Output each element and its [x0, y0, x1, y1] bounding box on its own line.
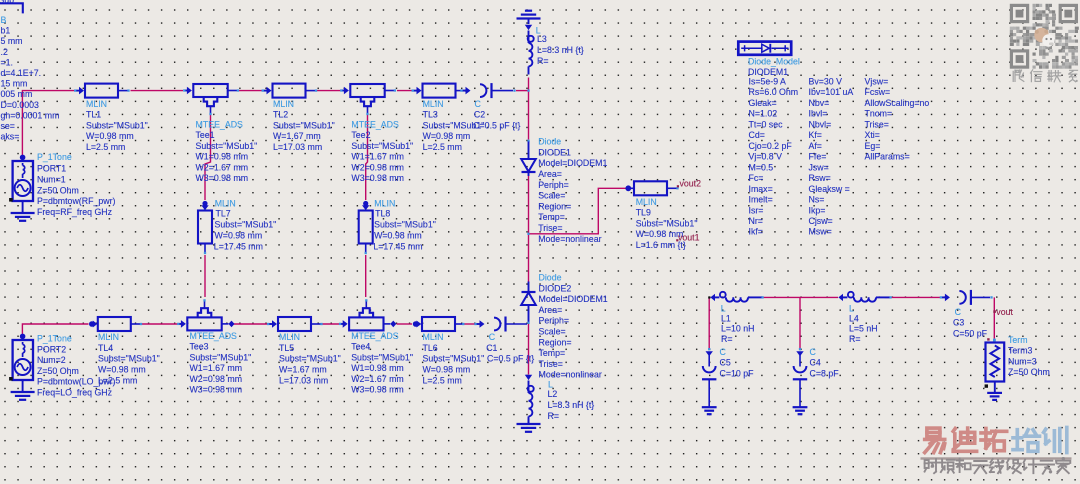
svg-text:Num=1: Num=1: [37, 174, 66, 184]
svg-text:Subst="MSub1": Subst="MSub1": [636, 218, 698, 228]
svg-text:MSub: MSub: [0, 0, 14, 5]
svg-text:L=17.03 mm: L=17.03 mm: [273, 142, 322, 152]
svg-text:L=17.03 mm: L=17.03 mm: [279, 376, 328, 386]
svg-text:Diode: Diode: [539, 273, 562, 283]
svg-text:Gleak=: Gleak=: [749, 98, 777, 108]
svg-text:W3=0.98 mm: W3=0.98 mm: [190, 385, 243, 395]
svg-text:C=50 pF: C=50 pF: [953, 328, 988, 338]
svg-text:L=8.3 nH {t}: L=8.3 nH {t}: [548, 400, 595, 410]
svg-text:L: L: [548, 380, 553, 390]
svg-text:Isr=: Isr=: [749, 205, 764, 215]
svg-text:Temp=: Temp=: [539, 348, 566, 358]
svg-text:aks=: aks=: [1, 132, 20, 142]
svg-text:MLIN: MLIN: [374, 198, 395, 208]
svg-text:W=0.98 mm: W=0.98 mm: [374, 231, 422, 241]
svg-text:TL6: TL6: [423, 343, 438, 353]
svg-text:Model=DIODEM1: Model=DIODEM1: [538, 158, 607, 168]
svg-text:Diode: Diode: [538, 137, 561, 147]
svg-text:D=0.0003: D=0.0003: [1, 100, 40, 110]
svg-text:TL9: TL9: [636, 208, 651, 218]
svg-text:Trise=: Trise=: [538, 223, 562, 233]
svg-text:L=17.45 mm: L=17.45 mm: [214, 242, 263, 252]
svg-text:MLIN: MLIN: [215, 198, 236, 208]
svg-text:Subst="MSub1": Subst="MSub1": [351, 141, 413, 151]
svg-text:Tnom=: Tnom=: [865, 109, 893, 119]
svg-text:Fcsw=: Fcsw=: [865, 87, 891, 97]
svg-text:Tee2: Tee2: [351, 130, 370, 140]
svg-text:W=1.67 mm: W=1.67 mm: [279, 365, 327, 375]
svg-text:Periph=: Periph=: [539, 316, 570, 326]
svg-text:L=5 nH: L=5 nH: [849, 324, 878, 334]
svg-text:Subst="MSub1": Subst="MSub1": [190, 352, 252, 362]
svg-text:C: C: [475, 99, 482, 109]
svg-text:C5: C5: [720, 358, 731, 368]
svg-text:Model=DIODEM1: Model=DIODEM1: [539, 294, 608, 304]
svg-text:MLIN: MLIN: [273, 99, 294, 109]
svg-text:Eg=: Eg=: [865, 141, 881, 151]
svg-text:vout2: vout2: [680, 178, 702, 188]
svg-text:MTEE_ADS: MTEE_ADS: [351, 331, 399, 341]
svg-text:C=10 pF: C=10 pF: [720, 368, 755, 378]
svg-text:005 mm: 005 mm: [1, 89, 33, 99]
svg-text:Is=5e-9 A: Is=5e-9 A: [749, 77, 787, 87]
svg-text:Periph=: Periph=: [538, 180, 569, 190]
svg-text:Vj=0.8 V: Vj=0.8 V: [749, 152, 783, 162]
svg-text:DIODE2: DIODE2: [539, 283, 572, 293]
svg-text:Num=3: Num=3: [1008, 356, 1037, 366]
svg-text:Subst="MSub1": Subst="MSub1": [351, 352, 413, 362]
svg-text:Cjo=0.2 pF: Cjo=0.2 pF: [749, 141, 793, 151]
svg-text:PORT1: PORT1: [37, 164, 66, 174]
svg-text:L=8.3 nH {t}: L=8.3 nH {t}: [537, 45, 584, 55]
svg-text:W3=0.98 mm: W3=0.98 mm: [351, 173, 404, 183]
svg-text:Jsw=: Jsw=: [809, 162, 829, 172]
svg-text:15 mm: 15 mm: [1, 79, 28, 89]
svg-text:Rsw=: Rsw=: [809, 173, 831, 183]
svg-text:N=1.02: N=1.02: [749, 109, 778, 119]
svg-text:L=10 nH: L=10 nH: [721, 324, 755, 334]
svg-text:Area=: Area=: [538, 169, 562, 179]
svg-text:Freq=LO_freq GHz: Freq=LO_freq GHz: [37, 388, 112, 398]
svg-text:P=dbmtow(RF_pwr): P=dbmtow(RF_pwr): [37, 196, 116, 206]
svg-text:DIODE1: DIODE1: [538, 147, 571, 157]
svg-text:Af=: Af=: [809, 141, 822, 151]
svg-text:Trise=: Trise=: [539, 359, 563, 369]
svg-text:Subst="MSub1": Subst="MSub1": [196, 141, 258, 151]
svg-text:MLIN: MLIN: [86, 99, 107, 109]
svg-text:Bv=30 V: Bv=30 V: [809, 77, 843, 87]
svg-text:C: C: [955, 307, 962, 317]
svg-text:Cjsw=: Cjsw=: [809, 216, 833, 226]
svg-text:Fc=: Fc=: [749, 173, 764, 183]
svg-text:.2: .2: [1, 47, 8, 57]
svg-text:W=0.98 mm: W=0.98 mm: [86, 131, 134, 141]
svg-text:Tee3: Tee3: [190, 342, 209, 352]
svg-text:Term3: Term3: [1008, 346, 1033, 356]
svg-text:Ffe=: Ffe=: [809, 152, 827, 162]
svg-text:MTEE_ADS: MTEE_ADS: [196, 120, 244, 130]
svg-text:W2=0.98 mm: W2=0.98 mm: [351, 162, 404, 172]
svg-text:B: B: [1, 15, 7, 25]
svg-text:L: L: [721, 304, 726, 314]
svg-text:C: C: [489, 332, 496, 342]
svg-text:Subst="MSub1": Subst="MSub1": [215, 220, 277, 230]
svg-text:Ns=: Ns=: [809, 195, 825, 205]
svg-text:W3=0.98 mm: W3=0.98 mm: [351, 385, 404, 395]
svg-text:C1: C1: [486, 343, 497, 353]
svg-text:L: L: [849, 304, 854, 314]
svg-text:Tt=0 sec: Tt=0 sec: [749, 119, 784, 129]
svg-text:MTEE_ADS: MTEE_ADS: [351, 120, 399, 130]
svg-text:W1=0.98 mm: W1=0.98 mm: [351, 363, 404, 373]
svg-text:TL1: TL1: [86, 110, 101, 120]
svg-text:Ibvl=: Ibvl=: [809, 109, 828, 119]
svg-text:Z=50 Ohm: Z=50 Ohm: [37, 185, 79, 195]
svg-text:Mode=nonlinear: Mode=nonlinear: [538, 234, 601, 244]
svg-text:W3=0.98 mm: W3=0.98 mm: [196, 173, 249, 183]
svg-text:Scale=: Scale=: [539, 327, 566, 337]
svg-text:C=0.5 pF {t}: C=0.5 pF {t}: [473, 120, 520, 130]
svg-text:Gleaksw =: Gleaksw =: [809, 184, 850, 194]
svg-text:W=0.98 mm: W=0.98 mm: [423, 365, 471, 375]
svg-text:W1=1.67 mm: W1=1.67 mm: [190, 363, 243, 373]
svg-text:MLIN: MLIN: [98, 332, 119, 342]
svg-text:L=2.5 mm: L=2.5 mm: [86, 142, 125, 152]
svg-text:W=0.98 mm: W=0.98 mm: [215, 231, 263, 241]
svg-text:L2: L2: [548, 389, 558, 399]
svg-text:Freq=RF_freq GHz: Freq=RF_freq GHz: [37, 207, 112, 217]
svg-text:R=: R=: [721, 334, 733, 344]
svg-text:Subst="MSub1": Subst="MSub1": [98, 354, 160, 364]
svg-text:Msw=: Msw=: [809, 227, 832, 237]
svg-text:L=17.45 mm: L=17.45 mm: [373, 242, 422, 252]
svg-text:PORT2: PORT2: [37, 344, 66, 354]
svg-text:P_1Tone: P_1Tone: [37, 152, 72, 162]
svg-text:d=4.1E+7.: d=4.1E+7.: [1, 68, 42, 78]
svg-text:W2=0.98 mm: W2=0.98 mm: [190, 374, 243, 384]
svg-text:Imelt=: Imelt=: [749, 195, 773, 205]
svg-text:R=: R=: [537, 56, 549, 66]
svg-text:L1: L1: [721, 313, 731, 323]
svg-text:Subst="MSub1": Subst="MSub1": [374, 220, 436, 230]
svg-text:AllowScaling=no: AllowScaling=no: [865, 98, 930, 108]
svg-text:Trise=: Trise=: [865, 119, 889, 129]
svg-text:W1=1.67 mm: W1=1.67 mm: [351, 152, 404, 162]
svg-text:TL2: TL2: [273, 110, 288, 120]
svg-text:W2=1.67 mm: W2=1.67 mm: [351, 374, 404, 384]
svg-text:Imax=: Imax=: [749, 184, 773, 194]
svg-text:Temp=: Temp=: [538, 212, 565, 222]
svg-text:TL5: TL5: [279, 343, 294, 353]
svg-text:C=0.5 pF {t}: C=0.5 pF {t}: [487, 354, 534, 364]
svg-text:TL7: TL7: [216, 209, 231, 219]
svg-text:Num=2: Num=2: [37, 355, 66, 365]
svg-text:Z=50 Ohm: Z=50 Ohm: [37, 366, 79, 376]
svg-text:Mode=nonlinear: Mode=nonlinear: [539, 370, 602, 380]
svg-text:C=8 pF: C=8 pF: [810, 368, 840, 378]
svg-text:L3: L3: [537, 34, 547, 44]
svg-text:C4: C4: [810, 358, 821, 368]
svg-text:MLIN: MLIN: [636, 197, 657, 207]
svg-text:TL3: TL3: [423, 110, 438, 120]
svg-text:R=: R=: [548, 411, 560, 421]
svg-text:L=2.5 mm: L=2.5 mm: [423, 142, 462, 152]
svg-text:AllParams=: AllParams=: [865, 152, 910, 162]
svg-text:Nr=: Nr=: [749, 216, 763, 226]
svg-text:Subst="MSub1": Subst="MSub1": [273, 120, 335, 130]
svg-text:TL4: TL4: [98, 343, 113, 353]
svg-text:C2: C2: [474, 110, 485, 120]
svg-text:Cd=: Cd=: [749, 130, 765, 140]
svg-text:C: C: [810, 347, 817, 357]
svg-text:Z=50 Ohm: Z=50 Ohm: [1008, 367, 1050, 377]
svg-text:vout: vout: [996, 307, 1013, 317]
svg-text:Tee4: Tee4: [351, 342, 370, 352]
svg-text:Ikf=: Ikf=: [749, 227, 763, 237]
svg-text:Ibv=101 uA: Ibv=101 uA: [809, 87, 854, 97]
svg-text:L=2.5 mm: L=2.5 mm: [98, 376, 137, 386]
svg-text:Term: Term: [1008, 335, 1028, 345]
svg-text:Tee1: Tee1: [196, 130, 215, 140]
svg-text:Subst="MSub1": Subst="MSub1": [86, 120, 148, 130]
svg-text:MLIN: MLIN: [423, 99, 444, 109]
svg-text:C: C: [720, 347, 727, 357]
svg-text:W=0.98 mm: W=0.98 mm: [423, 131, 471, 141]
svg-text:vout1: vout1: [678, 232, 700, 242]
svg-text:Rs=6.0 Ohm: Rs=6.0 Ohm: [749, 87, 799, 97]
svg-text:MLIN: MLIN: [279, 332, 300, 342]
svg-text:Diode_Model: Diode_Model: [748, 56, 800, 66]
svg-text:C3: C3: [953, 318, 964, 328]
svg-text:se=: se=: [1, 121, 15, 131]
svg-text:gh=0.0001 mm: gh=0.0001 mm: [1, 110, 60, 120]
svg-text:5 mm: 5 mm: [1, 36, 23, 46]
svg-text:M=0.5: M=0.5: [749, 162, 774, 172]
svg-text:Subst="MSub1": Subst="MSub1": [423, 354, 485, 364]
svg-text:W=0.98 mm: W=0.98 mm: [636, 229, 684, 239]
svg-text:=1.: =1.: [1, 57, 13, 67]
svg-text:W=0.98 mm: W=0.98 mm: [98, 365, 146, 375]
svg-text:L=2.5 mm: L=2.5 mm: [423, 376, 462, 386]
svg-text:W=1.67 mm: W=1.67 mm: [273, 131, 321, 141]
svg-text:R=: R=: [849, 334, 861, 344]
svg-text:Kf=: Kf=: [809, 130, 822, 140]
svg-text:Region=: Region=: [539, 337, 572, 347]
svg-text:b1: b1: [1, 26, 11, 36]
svg-text:Region=: Region=: [538, 201, 571, 211]
svg-text:Subst="MSub1": Subst="MSub1": [279, 354, 341, 364]
svg-text:Scale=: Scale=: [538, 191, 565, 201]
svg-text:MLIN: MLIN: [423, 332, 444, 342]
svg-text:TL8: TL8: [375, 209, 390, 219]
svg-text:MTEE_ADS: MTEE_ADS: [190, 331, 238, 341]
svg-text:Vjsw=: Vjsw=: [865, 77, 889, 87]
svg-text:Area=: Area=: [539, 305, 563, 315]
svg-text:W1=0.98 mm: W1=0.98 mm: [196, 152, 249, 162]
svg-text:DIODEM1: DIODEM1: [748, 67, 788, 77]
svg-text:W2=1.67 mm: W2=1.67 mm: [196, 162, 249, 172]
svg-text:Xti=: Xti=: [865, 130, 880, 140]
svg-text:Nbv=: Nbv=: [809, 98, 830, 108]
svg-text:P_1Tone: P_1Tone: [37, 334, 72, 344]
svg-text:Ikp=: Ikp=: [809, 205, 826, 215]
svg-text:L4: L4: [849, 313, 859, 323]
svg-text:Nbvl=: Nbvl=: [809, 119, 832, 129]
